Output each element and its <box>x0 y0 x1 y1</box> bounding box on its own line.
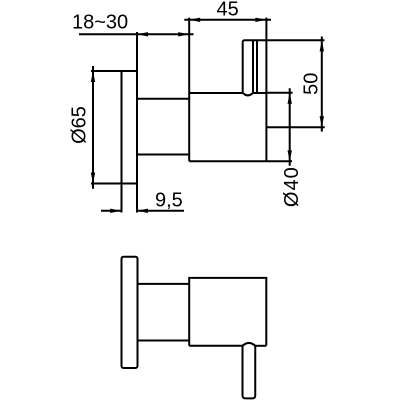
bottom view flange <box>122 257 138 368</box>
arrowheads dia65 <box>91 71 95 82</box>
dimension line 50 <box>266 37 324 132</box>
bottom view stem <box>243 346 256 399</box>
svg-text:Ø40: Ø40 <box>281 166 303 207</box>
arrowheads 50 <box>320 40 324 51</box>
svg-text:18~30: 18~30 <box>72 12 128 34</box>
handle lever <box>243 40 325 95</box>
arrowheads 45 <box>189 18 200 22</box>
arrowheads 18~30 <box>137 32 148 36</box>
dimension line 9.5 <box>101 210 184 212</box>
valve body outline <box>189 18 292 162</box>
svg-text:50: 50 <box>301 73 323 95</box>
svg-text:45: 45 <box>216 0 238 21</box>
arrowheads 9.5 <box>110 209 121 213</box>
dimension line 45 <box>184 19 271 21</box>
arrowheads dia40 <box>288 93 292 104</box>
dimension line dia40 <box>289 88 291 166</box>
svg-text:9,5: 9,5 <box>155 190 183 212</box>
dimension line 18~30 <box>79 33 194 35</box>
neck wall lines <box>137 99 189 155</box>
dimension line dia65 <box>92 66 94 189</box>
bottom view body <box>189 278 266 346</box>
bottom view neck lines <box>138 284 190 341</box>
flange top view outline <box>91 32 137 213</box>
svg-text:Ø65: Ø65 <box>69 106 91 144</box>
